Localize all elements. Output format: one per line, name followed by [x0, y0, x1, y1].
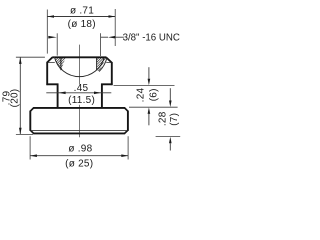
- thread callout: leader line inner: [101, 36, 108, 38]
- dimension (11.5) text halo: [66, 95, 96, 105]
- dimension .79: dimension line: [19, 57, 21, 134]
- dimension .24: up arrow: [148, 107, 151, 114]
- thread callout: left inner extension line: [56, 33, 58, 55]
- dimension .24 (6): step extension line: [114, 84, 175, 86]
- flange bottom chamfer edge line: [31, 130, 128, 132]
- flange chamfer bottom-right: [125, 130, 128, 133]
- hatch right patch: [95, 57, 106, 71]
- head chamfer left: [47, 57, 52, 62]
- svg-text:(ø 25): (ø 25): [65, 158, 93, 169]
- dimension ø.71 (ø18): right arrow: [109, 15, 116, 18]
- head chamfer right: [106, 57, 112, 62]
- centerline upper segment: [79, 45, 81, 85]
- hatch left patch: [55, 57, 66, 70]
- head side left: [46, 62, 48, 85]
- svg-text:.24: .24: [136, 87, 147, 102]
- svg-text:(11.5): (11.5): [68, 95, 95, 106]
- svg-text:3/8" -16 UNC: 3/8" -16 UNC: [123, 32, 180, 43]
- step right: [101, 83, 113, 85]
- thread callout: leader arrow: [108, 36, 115, 39]
- svg-text:(6): (6): [149, 88, 160, 101]
- thread callout: leader line outer: [115, 36, 123, 38]
- dimension .79: down arrow: [19, 128, 22, 135]
- socket outer crimp arc right: [99, 57, 107, 71]
- flange chamfer bottom-left: [30, 130, 33, 133]
- svg-text:(7): (7): [169, 113, 180, 126]
- thread callout: right inner extension line: [100, 33, 102, 56]
- svg-text:(ø 18): (ø 18): [68, 19, 96, 30]
- dimension .28 (7): flange-bottom extension line: [156, 136, 181, 138]
- dimension ø.98 (ø25): right extension line: [127, 136, 129, 159]
- dimension ø.71 (ø18): left arrow: [47, 15, 54, 18]
- dimension .79 (20): bottom extension line: [16, 133, 33, 135]
- flange chamfer top-left: [30, 108, 33, 111]
- neck right: [101, 84, 103, 109]
- step left: [46, 83, 58, 85]
- svg-text:.45: .45: [74, 83, 89, 94]
- flange side left: [29, 111, 31, 131]
- dimension ø.98 (ø25): left extension line: [29, 136, 31, 159]
- head chamfer edge line left: [48, 62, 55, 64]
- dimension .24: down arrow: [148, 79, 151, 86]
- flange top face: [33, 107, 125, 109]
- head chamfer edge line right: [106, 62, 111, 64]
- socket bowl arc: [54, 57, 104, 77]
- svg-text:(20): (20): [9, 89, 20, 108]
- head side right: [111, 62, 113, 85]
- dimension ø.71 (ø18): dimension line: [47, 16, 115, 18]
- dimension ø.98: right arrow: [121, 154, 128, 157]
- part outline: head top face: [52, 56, 106, 58]
- dimension .45 text halo: [73, 85, 89, 92]
- neck left: [57, 84, 59, 109]
- dimension ø.71 (ø18): right extension line: [114, 9, 116, 46]
- flange chamfer top-right: [125, 108, 128, 111]
- svg-text:ø .71: ø .71: [70, 6, 94, 17]
- dimension ø.98 (ø25): dimension line: [30, 155, 128, 157]
- flange side right: [127, 111, 129, 131]
- dimension .79 (20): top extension line: [16, 56, 45, 58]
- socket edge line right: [96, 57, 98, 70]
- dimension .28: up arrow: [169, 137, 172, 144]
- dimension .45: left arrow: [59, 92, 66, 95]
- dimension .28: down arrow: [169, 101, 172, 108]
- dimension .45: right arrow: [94, 92, 101, 95]
- flange bottom face: [33, 132, 125, 134]
- dimension ø.98: left arrow: [30, 154, 37, 157]
- socket edge line left: [60, 57, 62, 70]
- svg-text:.28: .28: [158, 111, 169, 126]
- dimension .79: up arrow: [19, 57, 22, 64]
- dimension .45 (11.5): dimension line: [46, 92, 111, 94]
- svg-text:ø .98: ø .98: [68, 143, 92, 154]
- thread callout: left arrow: [48, 36, 57, 39]
- dimension .24 (6): flange-top extension line: [129, 106, 178, 108]
- dimension .28: upper tail line: [169, 88, 171, 100]
- dimension ø.71 (ø18): left extension line: [46, 10, 48, 54]
- centerline lower segment: [79, 105, 81, 138]
- dimension .24: upper tail line: [148, 67, 150, 79]
- dimension .28: lower tail line: [169, 143, 171, 150]
- dimension .24: lower tail line: [148, 114, 150, 125]
